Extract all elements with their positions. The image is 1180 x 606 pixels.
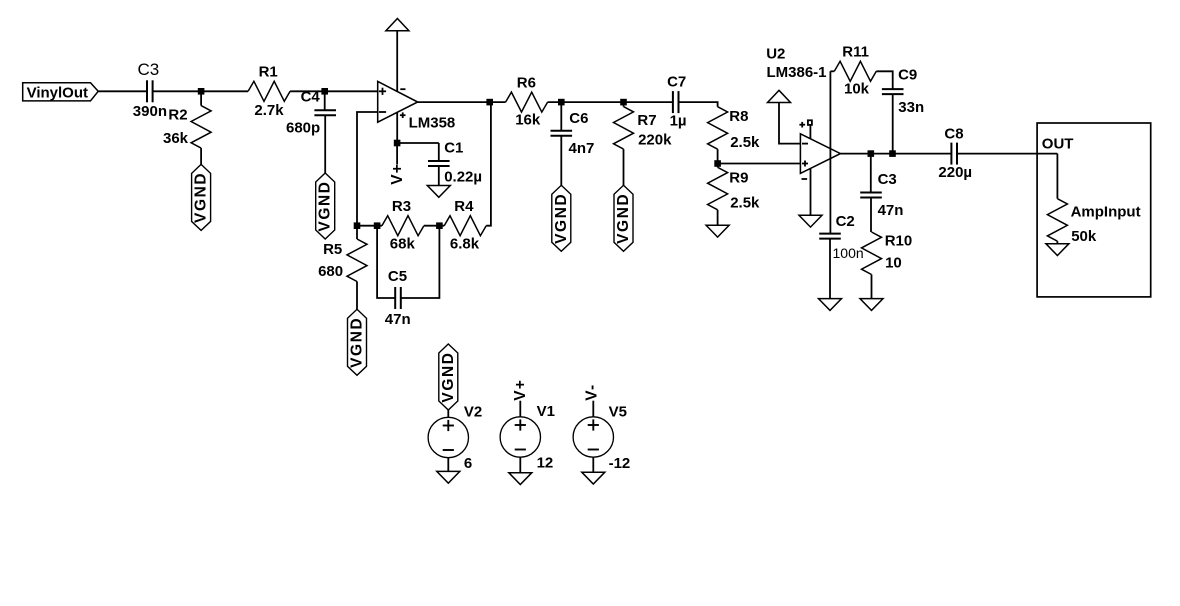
capacitor C1 [428,161,450,166]
svg-text:VGND: VGND [615,193,632,244]
svg-text:R1: R1 [259,63,278,80]
svg-text:10k: 10k [844,80,870,97]
svg-text:C1: C1 [444,139,463,156]
svg-text:2.7k: 2.7k [254,102,284,119]
resistor R6 [506,92,548,112]
svg-text:4n7: 4n7 [569,140,595,157]
op-amp U1 bottom power pin wire [396,112,398,143]
label U2 [766,46,785,63]
svg-text:VGND: VGND [553,193,570,244]
wire R11 to C9 [876,71,892,89]
ground VGND tag of C6 [552,185,571,251]
resistor R2 [191,91,211,164]
svg-text:VGND: VGND [349,317,366,368]
wire C3 to R1 [153,90,249,92]
node tag V+ above V1 [512,379,529,417]
node VinylOut (input tag) [23,83,99,102]
label R6 [517,75,536,92]
svg-text:U2: U2 [766,46,785,63]
label LM358 [409,114,456,131]
ground below R9 [706,225,729,237]
node junction E (C6) [558,99,565,106]
resistor R10 [862,232,882,299]
svg-text:V+: V+ [512,379,529,401]
svg-text:2.5k: 2.5k [730,195,760,212]
wire R6 to C7 [548,101,673,103]
svg-text:0.22µ: 0.22µ [444,169,482,186]
svg-text:R10: R10 [885,233,913,250]
op-amp U2 power pin square [808,120,812,139]
svg-text:C6: C6 [569,110,588,127]
resistor R9 [708,164,728,226]
capacitor C2 [819,234,841,299]
label V2 [464,403,482,420]
label C1 [444,139,463,156]
label R1 value 2.7k [254,102,284,119]
capacitor C9 [882,89,904,94]
label AmpInput [1071,203,1141,220]
svg-text:47n: 47n [878,202,904,219]
label AmpInput value 50k [1071,228,1097,245]
node junction I (C9 tap) [889,150,896,157]
wire R1 to opamp + input [290,90,378,92]
node junction D (U1 output) [486,99,493,106]
wire V+ arrow to U2 - input [779,103,800,144]
svg-text:R6: R6 [517,75,536,92]
wire V2 to ground [447,458,449,472]
label R10 value 10 [885,254,902,271]
svg-text:R9: R9 [729,169,748,186]
capacitor C3 [138,60,160,103]
svg-text:1µ: 1µ [670,113,687,130]
op-amp U2 LM386 triangle [800,134,840,174]
wire G to U2 + input [718,163,801,165]
ground VGND tag of R7 [614,185,633,251]
svg-text:R4: R4 [454,198,474,215]
node junction H (C3 tap) [868,150,875,157]
svg-text:68k: 68k [390,236,416,253]
label C8 value 220µ [938,164,972,181]
resistor R11 [830,61,876,81]
svg-text:VGND: VGND [440,351,457,402]
svg-text:OUT: OUT [1042,136,1074,153]
label C2 [836,213,855,230]
op-amp U1 top power - glyph [400,88,405,90]
op-amp U2 bottom power wire [810,169,812,216]
label C8 [944,125,963,142]
wire A to B [357,225,382,227]
node junction C4 [321,88,328,95]
label V1 value 12 [537,454,554,471]
ground below V1 [509,473,532,485]
label R8 [729,108,748,125]
resistor R4 [444,216,486,236]
label C2 value 100n [833,245,864,261]
label LM386-1 [767,64,827,81]
svg-text:47n: 47n [385,311,411,328]
svg-text:V1: V1 [537,403,555,420]
label OUT [1042,136,1074,153]
svg-text:680: 680 [318,263,343,280]
wire junction to C1 [397,143,439,161]
svg-text:2.5k: 2.5k [730,134,760,151]
label C3 value 390n [133,103,167,120]
label R7 [637,112,656,129]
svg-text:VGND: VGND [317,180,334,231]
ground VGND tag of R5 [348,309,367,375]
wire V5 to ground [592,457,594,472]
svg-text:220k: 220k [638,132,672,149]
wire C7 to R8 [679,102,718,107]
resistor R7 [614,102,634,185]
svg-text:-12: -12 [609,455,631,472]
svg-text:C4: C4 [301,88,321,105]
node junction A (R5/feedback) [354,222,361,229]
label C1 value 0.22µ [444,169,482,186]
svg-text:R5: R5 [323,241,342,258]
label V1 [537,403,555,420]
svg-text:C7: C7 [667,74,686,91]
label R4 [454,198,474,215]
svg-text:220µ: 220µ [938,164,972,181]
label R5 [323,241,342,258]
ground VGND tag above V2 [439,344,458,417]
svg-text:C2: C2 [836,213,855,230]
node junction F (R7) [620,99,627,106]
node junction C3/R2 [198,88,205,95]
ground below C2 [819,299,842,311]
ground VGND tag of R2 [192,164,211,230]
wire C9 to output [892,94,894,154]
label C6 [569,110,588,127]
svg-text:V5: V5 [609,403,627,420]
resistor R8 [708,107,728,164]
capacitor C4 [314,91,336,173]
wire U2 output to C8 [840,153,951,155]
capacitor C6 [551,102,573,185]
svg-text:R3: R3 [392,198,411,215]
node junction C (C5 right) [436,222,443,229]
label R11 [842,44,869,61]
svg-text:C9: C9 [898,67,917,84]
svg-text:6.8k: 6.8k [450,236,480,253]
capacitor C3 (47n) [860,154,882,232]
node junction B (C5 left) [374,222,381,229]
ground below U2 [799,215,822,227]
svg-text:33n: 33n [898,99,924,116]
op-amp U1 bottom power + glyph [400,112,406,118]
label R10 [885,233,913,250]
label C7 [667,74,686,91]
node junction U1 power/C1 [394,140,401,147]
wire R4 to output node [486,102,491,226]
svg-text:LM386-1: LM386-1 [767,64,827,81]
svg-text:LM358: LM358 [409,114,456,131]
label R5 value 680 [318,263,343,280]
svg-text:V-: V- [583,384,600,401]
label C4 [301,88,321,105]
resistor R3 [382,216,424,236]
wire U1 output to R6 [418,101,506,103]
svg-text:C8: C8 [944,125,963,142]
svg-text:10: 10 [885,254,902,271]
op-amp U2 bottom power - glyph [802,178,808,180]
op-amp U1 LM358 triangle [378,81,418,122]
svg-text:C3: C3 [878,171,897,188]
wire R3 to C [424,225,444,227]
label V2 value 6 [464,455,472,472]
svg-text:VinylOut: VinylOut [27,85,88,102]
wire C8 to OUT box [957,153,1057,155]
label C9 [898,67,917,84]
label R4 value 6.8k [450,236,480,253]
power arrow V- above U1 [386,19,409,31]
wire VinylOut to C3 [98,90,147,92]
op-amp U1 + input pin glyph [379,88,386,95]
svg-text:V+: V+ [389,163,406,185]
op-amp U2 - input glyph [802,143,808,145]
svg-text:R7: R7 [637,112,656,129]
label C5 value 47n [385,311,411,328]
svg-text:390n: 390n [133,103,167,120]
svg-text:12: 12 [537,454,554,471]
label C3 value 47n [878,202,904,219]
wire U1 - input to feedback node [357,112,378,226]
label R9 [729,169,748,186]
capacitor C8 [951,143,957,165]
wire R11 left leg [829,71,831,233]
label C6 value 4n7 [569,140,595,157]
label V5 [609,403,627,420]
svg-text:16k: 16k [515,112,541,129]
svg-text:R11: R11 [842,44,869,61]
resistor AmpInput 50k [1047,199,1067,244]
svg-text:C3: C3 [138,60,160,79]
ground below AmpInput [1046,244,1069,256]
svg-text:50k: 50k [1071,228,1097,245]
node junction G (R8/R9) [714,160,721,167]
capacitor C7 [673,91,679,113]
svg-text:C5: C5 [388,268,407,285]
svg-text:R8: R8 [729,108,748,125]
op-amp U2 + input glyph [802,161,808,167]
svg-text:V2: V2 [464,403,482,420]
label V5 value -12 [609,455,631,472]
wire C1 to ground [438,166,440,186]
label R3 [392,198,411,215]
label R7 value 220k [638,132,672,149]
wire into box to AmpInput [1056,154,1058,199]
label R2 [168,107,187,124]
ground below C1 [427,186,450,198]
block OUT (AmpInput box) [1037,123,1151,297]
svg-text:36k: 36k [163,130,189,147]
label C3 (47n) [878,171,897,188]
label R11 value 10k [844,80,870,97]
power arrow V+ above U2 [768,90,791,102]
svg-text:R2: R2 [168,107,187,124]
svg-text:680p: 680p [286,120,320,137]
ground below V2 [437,471,460,483]
voltage source V1 [500,417,540,457]
label R2 value 36k [163,130,189,147]
voltage source V5 [573,417,613,457]
wire V1 to ground [519,457,521,473]
node tag V- above V5 [583,384,600,417]
resistor R1 [248,81,290,101]
label R6 value 16k [515,112,541,129]
ground VGND tag of C4 [316,173,335,239]
voltage source V2 [428,417,468,457]
op-amp U1 - input pin glyph [379,111,386,113]
label R8 value 2.5k [730,134,760,151]
capacitor C5 [377,226,439,309]
svg-text:6: 6 [464,455,472,472]
label R1 [259,63,278,80]
ground below V5 [582,472,605,484]
label R3 value 68k [390,236,416,253]
label C4 value 680p [286,120,320,137]
op-amp U1 top power pin wire [396,31,398,92]
resistor R5 [347,226,367,310]
ground below R10 [860,299,883,311]
label R9 value 2.5k [730,195,760,212]
label C5 [388,268,407,285]
svg-text:VGND: VGND [193,172,210,223]
label C7 value 1µ [670,113,687,130]
node tag V+ below U1 [389,143,406,185]
svg-text:100n: 100n [833,245,864,261]
op-amp U2 power + glyph [799,122,805,128]
svg-text:AmpInput: AmpInput [1071,203,1141,220]
label C9 value 33n [898,99,924,116]
